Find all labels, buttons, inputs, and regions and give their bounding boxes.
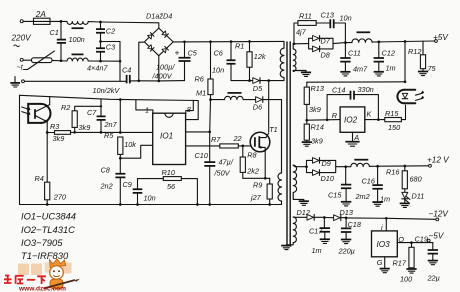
svg-text:C10: C10 xyxy=(195,151,208,160)
wire: choke top to bridge top xyxy=(88,22,159,29)
svg-text:−12V: −12V xyxy=(429,210,450,219)
node: C18 junction xyxy=(345,217,348,220)
resistor R16 680 xyxy=(386,166,422,189)
transformer primary winding xyxy=(269,41,284,80)
svg-text:4j7: 4j7 xyxy=(296,28,307,37)
svg-text:220µ: 220µ xyxy=(338,247,355,256)
wire: secondary2 top lead xyxy=(293,165,306,167)
thermistor ~t xyxy=(17,51,55,72)
svg-text:2m2: 2m2 xyxy=(355,192,370,201)
svg-text:R1: R1 xyxy=(235,42,244,51)
bridge diode D1 (top-left arm) xyxy=(148,33,154,39)
svg-text:1m: 1m xyxy=(386,64,396,73)
common-mode choke bottom winding xyxy=(67,54,88,61)
earth terminal circle xyxy=(22,80,25,83)
svg-text:C13: C13 xyxy=(321,11,334,20)
resistor R11 4j7 xyxy=(296,12,330,37)
node: IO3 input junction xyxy=(385,217,388,220)
wire: rail drop to R5 xyxy=(119,100,121,133)
node: R9 on rail xyxy=(268,203,271,206)
diode D10 xyxy=(313,170,334,183)
resistor R8 2k2 xyxy=(240,146,259,178)
svg-text:IO2−TL431C: IO2−TL431C xyxy=(21,224,75,235)
wire: divider to IO2 R pin xyxy=(307,119,340,122)
capacitor C6 10n xyxy=(212,42,236,81)
capacitor C9 10n xyxy=(123,179,156,205)
wire: T1 source drop xyxy=(264,152,266,179)
svg-text:3k9: 3k9 xyxy=(53,134,65,143)
svg-text:150: 150 xyxy=(388,123,400,132)
resistor R12 75 xyxy=(408,41,437,73)
wire: vertical link to earth line xyxy=(119,42,121,82)
svg-text:R13: R13 xyxy=(311,84,324,93)
svg-text:10n/2kV: 10n/2kV xyxy=(93,86,121,95)
svg-text:330n: 330n xyxy=(358,85,374,94)
node: bottom mains junction xyxy=(119,60,122,63)
node: K/C14 junction xyxy=(377,118,380,121)
diode D7 xyxy=(313,36,331,46)
wire: Y-cap midpoint to corner xyxy=(101,41,121,43)
svg-text:~t: ~t xyxy=(17,63,24,72)
wire: bridge DC- drop xyxy=(158,56,160,81)
watermark red title xyxy=(4,276,46,285)
svg-text:R15: R15 xyxy=(385,109,399,118)
svg-text:IO1−UC3844: IO1−UC3844 xyxy=(21,211,76,222)
capacitor C11 4m7 xyxy=(340,43,368,74)
ground for C17 xyxy=(320,239,330,243)
wire: thermistor to C1 bottom node xyxy=(52,59,67,62)
node: R10 on rail xyxy=(196,203,199,206)
ground for C18 xyxy=(341,240,351,244)
wire: control top rail xyxy=(20,95,199,100)
wire: VCC pin to C10 node xyxy=(186,131,210,133)
node: bridge DC- on rail xyxy=(157,80,160,83)
diode D9 xyxy=(313,158,331,169)
node: C10 on rail xyxy=(208,203,211,206)
wire: fuse to C1 node xyxy=(52,20,67,22)
svg-text:22: 22 xyxy=(233,134,242,143)
svg-text:A: A xyxy=(353,133,359,142)
svg-text:D13: D13 xyxy=(340,208,353,217)
wire: opto collector to rail xyxy=(49,97,51,105)
ground for C19 xyxy=(428,261,438,265)
IC IO3 7905 xyxy=(372,231,398,257)
svg-text:C5: C5 xyxy=(188,49,198,58)
svg-text:22µ: 22µ xyxy=(427,274,440,283)
optocoupler phototransistor symbol xyxy=(35,105,50,123)
svg-text:R6: R6 xyxy=(195,75,205,84)
ground for secondary 2 xyxy=(299,201,309,205)
capacitor C10 47u/50V xyxy=(195,151,234,205)
svg-text:C7: C7 xyxy=(87,108,97,117)
capacitor C2 xyxy=(96,22,115,42)
resistor R9 j27 xyxy=(250,178,272,204)
optocoupler phototransistor body xyxy=(28,104,50,123)
bridge diode D2 (top-right arm) xyxy=(162,31,168,37)
wire: DC+ rail xyxy=(173,40,284,43)
transformer aux winding xyxy=(278,100,282,205)
svg-text:R14: R14 xyxy=(311,123,324,132)
svg-text:10n: 10n xyxy=(212,66,224,75)
node: C9 on rail xyxy=(136,203,139,206)
node: C2/C3 midpoint xyxy=(99,40,102,43)
capacitor C14 330n branch xyxy=(327,85,378,120)
watermark faded text xyxy=(18,263,72,276)
node: R2 bottom xyxy=(73,131,76,134)
node: C14 left branch xyxy=(326,118,329,121)
svg-text:C19: C19 xyxy=(415,235,428,244)
node: AC2/earth junction xyxy=(137,79,140,82)
wire: -12V line xyxy=(346,218,436,219)
node: C5 on DC+ rail xyxy=(183,40,186,43)
capacitor C12 1m xyxy=(374,42,396,73)
svg-text:G: G xyxy=(377,258,383,267)
svg-text:IO3: IO3 xyxy=(377,240,391,249)
watermark mascot xyxy=(44,259,81,289)
node: drain clamp junction xyxy=(267,79,270,82)
resistor R13 3k9 xyxy=(304,84,324,120)
LED D11 xyxy=(402,189,425,203)
+12V terminal xyxy=(429,164,432,167)
vcc filter choke xyxy=(211,93,244,100)
ground for D11 xyxy=(400,203,410,207)
svg-text:D12: D12 xyxy=(297,208,310,217)
wire: choke to D6 xyxy=(243,99,256,101)
svg-text:R: R xyxy=(332,111,338,120)
svg-text:220V: 220V xyxy=(11,34,33,43)
snubber branch R11/C13 riser xyxy=(294,23,298,44)
svg-text:C3: C3 xyxy=(106,43,115,52)
svg-text:K: K xyxy=(367,110,373,119)
optocoupler LED symbol xyxy=(402,93,407,98)
ground for R14 xyxy=(302,142,312,146)
wire: choke bottom to X-cap column xyxy=(88,60,120,62)
capacitor C15 2m2 xyxy=(328,167,370,201)
wire: IO3 output line xyxy=(397,242,433,244)
svg-text:2n2: 2n2 xyxy=(100,182,113,191)
wire: secondary3 top lead to D12 xyxy=(293,216,307,218)
diode D12 xyxy=(297,208,325,220)
mains input terminal N xyxy=(20,58,23,61)
capacitor C17 1m xyxy=(309,218,330,256)
svg-text:+12 V: +12 V xyxy=(427,156,450,165)
node: secondary 1 start dot xyxy=(293,42,296,45)
capacitor C3 xyxy=(96,42,115,62)
svg-text:56: 56 xyxy=(167,182,176,191)
ground for secondary 1 xyxy=(301,72,311,76)
resistor R14 3k9 xyxy=(304,120,324,145)
capacitor C4 10n/2kV xyxy=(93,66,139,95)
wire: rail right end to pin7 area xyxy=(186,101,198,120)
node: divider midpoint xyxy=(305,119,308,122)
svg-text:C9: C9 xyxy=(123,180,132,189)
node: C3 bottom junction xyxy=(99,60,102,63)
svg-text:T1: T1 xyxy=(269,125,278,134)
diode D13 xyxy=(334,208,353,220)
rectifier pair D7/D8 frame xyxy=(309,38,333,49)
node: T1 source junction xyxy=(264,177,267,180)
node: VCC/C10 junction xyxy=(208,131,211,134)
wire: jog to IO1 pin4 xyxy=(120,145,152,158)
resistor R5 10k xyxy=(104,131,136,158)
ground for secondary 3 xyxy=(281,246,291,250)
resistor R17 100 xyxy=(393,243,415,284)
wire: pin 1 xyxy=(136,100,153,113)
transistor T1 IRF830 xyxy=(250,125,278,152)
ground for C12 xyxy=(374,72,384,76)
svg-text:1: 1 xyxy=(145,106,149,115)
wire: +5V sense drop xyxy=(404,42,406,82)
node: C17 junction xyxy=(323,216,326,219)
svg-text:3k9: 3k9 xyxy=(79,123,91,132)
bridge diode D4 (bottom-right arm) xyxy=(162,46,168,52)
wire: K pin to R15 xyxy=(365,119,385,121)
wire: +5V line mid xyxy=(333,43,352,44)
svg-text:R9: R9 xyxy=(253,181,262,190)
svg-text:C16: C16 xyxy=(362,177,376,186)
earth ground symbol xyxy=(10,77,20,88)
inductor L2 xyxy=(351,160,370,167)
svg-text:C18: C18 xyxy=(348,220,362,229)
resistor R15 150 xyxy=(385,105,406,132)
transformer secondary winding 2 (+12V) xyxy=(293,165,304,200)
svg-text:R4: R4 xyxy=(35,174,44,183)
svg-text:C14: C14 xyxy=(332,85,345,94)
svg-text:270: 270 xyxy=(53,193,66,202)
svg-text:D5: D5 xyxy=(253,84,263,93)
svg-text:10n: 10n xyxy=(144,194,156,203)
wire: drain vertical xyxy=(268,81,270,132)
svg-text:C2: C2 xyxy=(106,27,115,36)
node: C6 on DC+ rail xyxy=(230,40,233,43)
wire: -12V line to D13 xyxy=(324,217,333,219)
svg-text:C12: C12 xyxy=(382,49,395,58)
svg-text:10k: 10k xyxy=(124,140,136,149)
rectifier pair D9/D10 frame xyxy=(307,160,336,172)
IO2 anode pin and ground xyxy=(345,132,359,146)
svg-text:12k: 12k xyxy=(254,52,266,61)
svg-text:2k2: 2k2 xyxy=(246,167,259,176)
svg-text:680: 680 xyxy=(410,175,422,184)
transformer secondary winding 1 (+5V) xyxy=(293,44,306,72)
ground for R17 xyxy=(406,269,416,273)
svg-text:+5V: +5V xyxy=(433,33,449,42)
svg-text:2A: 2A xyxy=(35,10,47,19)
svg-text:R12: R12 xyxy=(408,47,421,56)
svg-text:4×4n7: 4×4n7 xyxy=(87,64,108,73)
svg-text:+: + xyxy=(175,49,180,58)
svg-text:1m: 1m xyxy=(312,246,322,255)
resistor R2 3k9 xyxy=(61,103,90,132)
svg-text:R10: R10 xyxy=(162,168,175,177)
svg-text:−5V: −5V xyxy=(429,231,445,240)
node: C2 top junction xyxy=(99,21,102,24)
wire: +5V line right xyxy=(372,41,434,42)
mains input terminal L xyxy=(20,20,23,23)
fuse F 2A xyxy=(32,10,52,24)
svg-text:R16: R16 xyxy=(386,168,400,177)
ground for R12 xyxy=(418,72,428,76)
capacitor C13 10n xyxy=(321,11,352,43)
-5V terminal xyxy=(427,239,430,242)
resistor R4 270 xyxy=(35,133,66,205)
node: gate/R8 junction xyxy=(241,145,244,148)
svg-text:www.dzsc.com: www.dzsc.com xyxy=(18,286,66,292)
node: C11/snubber junction xyxy=(344,41,347,44)
wire: L terminal to fuse xyxy=(23,20,32,22)
diode D6 xyxy=(253,97,282,112)
svg-text:T1−IRF830: T1−IRF830 xyxy=(21,250,69,261)
svg-text:100n: 100n xyxy=(69,35,85,44)
wire: OUT pin to R7 xyxy=(186,145,220,147)
resistor R1 12k xyxy=(235,42,266,81)
svg-text:D1ažD4: D1ažD4 xyxy=(146,12,172,21)
resistor R10 56 xyxy=(138,168,198,204)
node: D9/D10 left xyxy=(305,165,308,168)
node: sense/R13/opto junction xyxy=(404,80,407,83)
svg-text:IO3−7905: IO3−7905 xyxy=(21,237,63,248)
node: R5 top xyxy=(119,131,122,134)
wire: VCC vertical R6 to C10 xyxy=(209,100,212,162)
svg-text:/400V: /400V xyxy=(152,72,173,81)
svg-text:D8: D8 xyxy=(321,51,331,60)
resistor R6 M1 xyxy=(195,42,214,100)
capacitor C1 100n xyxy=(50,21,85,60)
resistor R7 22 xyxy=(211,134,252,148)
wire: earth line left segment xyxy=(25,80,126,82)
ground for C15 xyxy=(341,202,351,206)
svg-text:C6: C6 xyxy=(214,49,224,58)
svg-text:IO1: IO1 xyxy=(160,132,173,141)
node: R1 on DC+ rail xyxy=(248,40,251,43)
+5V terminal xyxy=(435,40,438,43)
transformer secondary winding 3 (-12V) xyxy=(286,217,296,245)
bridge diode D3 (bottom-left arm) xyxy=(148,45,154,51)
svg-text:R17: R17 xyxy=(393,259,407,268)
opto light arrows xyxy=(22,107,31,115)
svg-text:100: 100 xyxy=(400,275,412,284)
svg-text:/50V: /50V xyxy=(214,169,231,178)
node: R17 junction xyxy=(410,241,413,244)
node: C7 bottom xyxy=(100,131,103,134)
svg-text:M1: M1 xyxy=(196,89,206,98)
svg-text:C8: C8 xyxy=(101,166,111,175)
node: C1 bottom junction xyxy=(60,59,63,62)
svg-text:R5: R5 xyxy=(104,131,114,140)
-12V terminal xyxy=(436,218,439,221)
svg-text:10n: 10n xyxy=(340,14,352,23)
wire: +12V line xyxy=(336,165,429,168)
svg-text:R11: R11 xyxy=(299,12,312,21)
IO3 ground pin xyxy=(377,257,390,273)
wire: FB line R2 to IO1 pin2 xyxy=(75,131,153,133)
svg-text:IO2: IO2 xyxy=(344,116,358,125)
svg-text:C11: C11 xyxy=(348,49,361,58)
svg-text:D9: D9 xyxy=(322,159,331,168)
capacitor C18 220u xyxy=(338,218,362,256)
resistor R3 3k9 xyxy=(47,122,74,143)
svg-text:j27: j27 xyxy=(250,193,262,202)
node: R4 on rail xyxy=(46,203,49,206)
capacitor C8 2n2 xyxy=(100,158,126,204)
svg-text:C4: C4 xyxy=(122,66,131,75)
label ~ (AC) xyxy=(14,45,20,47)
capacitor C7 2n7 xyxy=(87,106,118,132)
capacitor C16 1m xyxy=(362,166,391,203)
svg-text:3k9: 3k9 xyxy=(309,105,321,114)
svg-text:C15: C15 xyxy=(328,191,342,200)
svg-text:75: 75 xyxy=(428,64,437,73)
svg-text:R3: R3 xyxy=(50,122,59,131)
wire: +5V line start xyxy=(294,43,309,45)
wire: bottom ground rail xyxy=(20,204,282,206)
svg-text:47µ/: 47µ/ xyxy=(219,158,234,167)
svg-text:D11: D11 xyxy=(412,192,425,201)
svg-text:2n7: 2n7 xyxy=(104,120,118,129)
capacitor C19 22u xyxy=(415,235,440,283)
wire: opto emitter drop xyxy=(46,122,48,133)
wire: pin 8 xyxy=(186,100,194,113)
common-mode choke top winding xyxy=(67,22,88,29)
node: C15 junction xyxy=(344,165,347,168)
svg-text:D6: D6 xyxy=(253,103,263,112)
node: R16 junction xyxy=(403,165,406,168)
ground for C16 xyxy=(372,202,382,206)
wire: earth/DC- line to C5 xyxy=(139,80,185,82)
svg-text:D7: D7 xyxy=(321,36,331,45)
node: VCC line at R6 bottom xyxy=(209,98,212,101)
node: rail at x120 xyxy=(119,98,122,101)
bridge rectifier D1..D4 diamond xyxy=(144,28,173,56)
svg-text:C17: C17 xyxy=(309,227,323,236)
ground for C11 xyxy=(340,72,350,76)
IC IO1 UC3844 xyxy=(153,113,186,164)
svg-text:8: 8 xyxy=(187,105,192,114)
node: R6 on DC+ rail xyxy=(209,40,212,43)
svg-text:100µ/: 100µ/ xyxy=(156,63,175,72)
node: R1/C6/D5 junction xyxy=(248,79,251,82)
transformer core xyxy=(287,42,290,246)
node: C1 top junction xyxy=(60,20,63,23)
svg-text:R2: R2 xyxy=(61,103,70,112)
wire: source/current-sense line xyxy=(243,177,270,179)
svg-text:R8: R8 xyxy=(247,151,257,160)
wire: sense line to R13 xyxy=(307,82,405,87)
optocoupler LED body xyxy=(397,90,415,104)
svg-text:R7: R7 xyxy=(211,135,221,144)
diode D8 xyxy=(313,46,331,60)
node: R3/R4/emitter junction xyxy=(46,131,49,134)
diode D5 xyxy=(253,78,269,93)
IC IO2 TL431C xyxy=(340,107,365,132)
node: R5/C8 junction xyxy=(119,157,122,160)
wire: rail drop to R2/C7 top xyxy=(75,99,101,111)
svg-text:3k9: 3k9 xyxy=(311,137,323,146)
inductor L1 xyxy=(352,32,372,42)
node: rail drop at x101 xyxy=(100,105,102,107)
svg-text:C1: C1 xyxy=(50,28,59,37)
node: C8 on rail xyxy=(119,203,122,206)
wire: N terminal to thermistor xyxy=(23,59,31,61)
node: sense drop junction xyxy=(404,40,407,43)
wire: clamp bottom C6 to D5 xyxy=(231,80,253,82)
svg-text:4m7: 4m7 xyxy=(353,65,368,74)
node: C12 junction xyxy=(377,41,380,44)
capacitor C5 100u/400V xyxy=(152,42,198,81)
wire: bridge AC2 stub and drop xyxy=(139,42,144,81)
wire: IO3 input drop xyxy=(385,218,387,231)
opto LED emission arrows xyxy=(416,91,425,101)
